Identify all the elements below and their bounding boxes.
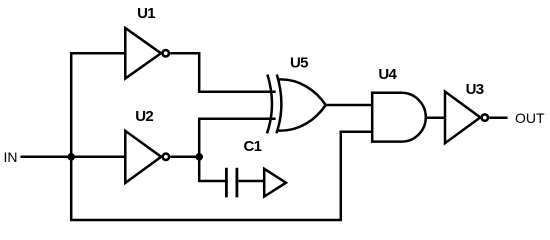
svg-text:U4: U4 xyxy=(378,66,397,83)
svg-text:OUT: OUT xyxy=(515,110,545,126)
svg-text:U3: U3 xyxy=(466,81,484,98)
svg-text:U2: U2 xyxy=(135,108,153,125)
svg-text:U5: U5 xyxy=(290,54,308,71)
svg-text:C1: C1 xyxy=(244,138,262,155)
svg-text:U1: U1 xyxy=(137,5,155,22)
svg-text:IN: IN xyxy=(4,149,18,165)
